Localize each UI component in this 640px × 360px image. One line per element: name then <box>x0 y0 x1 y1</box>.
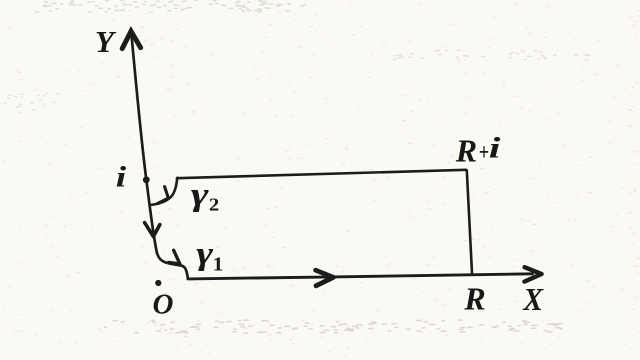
right vertical line R+i to R <box>467 170 472 273</box>
svg-text:γ: γ <box>191 176 209 212</box>
svg-text:R: R <box>463 281 485 317</box>
svg-text:+: + <box>479 139 489 166</box>
svg-text:Y: Y <box>95 24 117 59</box>
mid direction arrow on X axis <box>316 270 334 286</box>
svg-text:O: O <box>153 288 174 320</box>
arrowhead on gamma-2 hook <box>158 187 169 204</box>
svg-text:i: i <box>489 130 501 164</box>
gamma-2 hook (curve from top line to Y axis) <box>152 178 178 205</box>
svg-text:R: R <box>455 133 477 169</box>
svg-text:γ: γ <box>196 235 214 272</box>
arrowhead on gamma-1 hook <box>169 250 180 264</box>
Y axis shaft <box>132 36 157 253</box>
X axis arrowhead <box>524 267 541 281</box>
svg-text:X: X <box>522 281 544 317</box>
down arrowhead on Y axis <box>145 223 160 237</box>
Y axis arrowhead <box>122 31 140 48</box>
svg-text:1: 1 <box>213 252 224 275</box>
origin dot above O <box>155 280 161 286</box>
top horizontal line i to R+i <box>177 170 466 178</box>
svg-text:i: i <box>116 161 127 194</box>
gamma-1 hook (curve from axis to X line) <box>157 253 188 278</box>
X axis line <box>188 274 533 279</box>
svg-text:2: 2 <box>209 196 219 215</box>
point i dot on Y axis <box>143 176 150 183</box>
